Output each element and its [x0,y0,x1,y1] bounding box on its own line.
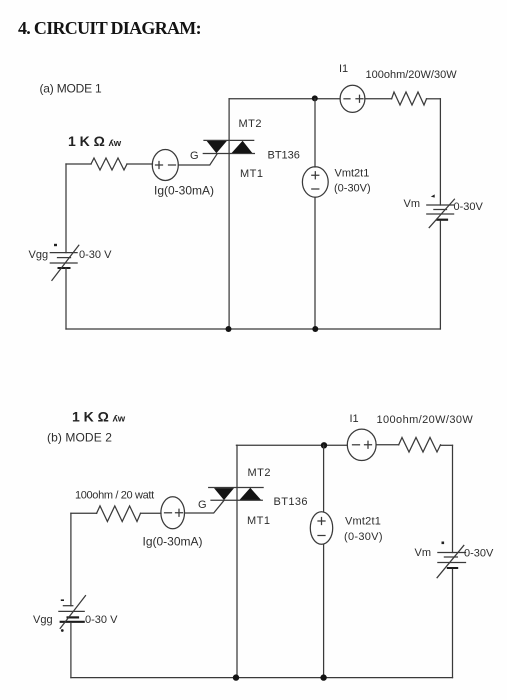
wire: left branch lower vertical (b) [70,623,72,678]
svg-text:ʎw: ʎw [113,414,126,425]
battery Vgg (a) plate 1 long [50,252,77,254]
resistor R 1K (a) zigzag [91,158,127,170]
minus sign inside Ig (a) [169,164,176,166]
svg-text:Vgg: Vgg [33,614,53,626]
wire: top-left horizontal (a) left of R [66,163,91,165]
svg-text:Vm: Vm [415,547,432,559]
svg-text:(b) MODE 2: (b) MODE 2 [47,431,112,445]
svg-text:Vmt2t1: Vmt2t1 [335,168,370,180]
svg-text:0-30V: 0-30V [464,548,494,560]
wire: right branch lower vertical (a) [439,221,441,329]
minus sign inside I1 (b) [353,444,360,446]
svg-text:100ohm/20W/30W: 100ohm/20W/30W [366,69,458,81]
current source Ig (b) [161,497,185,529]
current source I1 (a) [340,85,365,112]
battery Vm (b) plate 2 short [444,556,457,558]
battery Vm (b) plate 1 long [438,552,466,554]
resistor load 100ohm (a) zigzag [392,92,427,105]
resistor R 100ohm/20watt (b) zigzag [97,506,141,522]
junction dot triac-MT1/bottom rail (b) [233,674,239,680]
battery Vgg (a) polarity tick [54,244,57,246]
svg-text:Vm: Vm [404,198,421,210]
battery Vm (a) polarity tick [431,194,435,197]
wire: top rail (a) triac to I1 source [229,98,340,100]
svg-text:MT2: MT2 [239,118,263,130]
wire: I1 to load resistor (b) [376,444,399,446]
plus sign inside I1 (b) [365,441,372,448]
svg-text:1 K Ω: 1 K Ω [68,133,105,149]
wire: right branch upper vertical (a) [439,99,441,205]
resistor load 100ohm (b) zigzag [399,438,441,453]
svg-text:100ohm/20W/30W: 100ohm/20W/30W [377,414,474,426]
svg-text:(a) MODE 1: (a) MODE 1 [40,82,103,96]
wire: load resistor to right corner (a) [427,98,441,100]
battery Vgg (b) plate 4 long [60,621,85,623]
svg-text:(0-30V): (0-30V) [344,531,383,543]
battery Vm (b) polarity tick [442,542,445,545]
battery Vm (a) plate 3 long [427,213,454,215]
battery Vgg (b) variable diagonal [60,596,85,629]
wire: top rail (b) triac to I1 source [236,444,347,446]
svg-text:4. CIRCUIT DIAGRAM:: 4. CIRCUIT DIAGRAM: [18,18,201,38]
wire: left branch upper vertical (a) [65,164,67,253]
svg-text:0-30V: 0-30V [454,201,484,213]
junction dot Vmt2t1/bottom rail (a) [312,326,318,332]
junction dot Vmt2t1/bottom rail (b) [320,674,326,680]
battery Vgg (a) plate 4 short [58,267,71,269]
wire: R to Ig source (a) [127,163,153,165]
svg-text:MT1: MT1 [247,515,271,527]
plus sign inside Vmt2t1 (a) [312,172,319,179]
triac BT136 (b) right triangle [240,488,262,500]
svg-text:0-30 V: 0-30 V [85,614,118,626]
svg-text:Ig(0-30mA): Ig(0-30mA) [143,535,203,549]
triac BT136 (a) left triangle [207,141,227,153]
wire: left horizontal (b) left of R [71,512,97,514]
battery Vgg (b) plate 1 short [63,605,72,607]
wire: Vmt2t1 branch upper (a) [314,99,316,167]
svg-text:MT2: MT2 [248,467,272,479]
svg-text:G: G [190,150,199,162]
wire: left branch lower vertical (a) [65,268,67,329]
wire: Vmt2t1 branch upper (b) [323,445,325,512]
triac BT136 (a) bottom bar [203,153,254,155]
current source I1 (b) [347,429,376,460]
plus sign inside Ig (b) [176,509,183,516]
wire: R to Ig source (b) [141,512,162,514]
plus sign inside Ig (a) [156,162,163,169]
battery Vm (b) plate 4 short [447,567,458,569]
minus sign inside Ig (b) [165,512,172,514]
triac U2 BT136 (b) vertical lead MT2-MT1 [236,445,238,677]
svg-text:MT1: MT1 [240,168,264,180]
triac BT136 (a) right triangle [232,141,253,153]
battery Vgg (b) plate 3 short [67,616,80,618]
battery Vm (a) variable diagonal [429,199,454,227]
plus sign inside Vmt2t1 (b) [318,518,325,525]
junction dot triac-MT1/bottom rail (a) [226,326,232,332]
svg-text:I1: I1 [339,63,348,75]
wire: gate lead (a) [178,154,217,165]
triac BT136 (a) top bar [204,139,254,141]
svg-text:0-30 V: 0-30 V [79,249,112,261]
triac U1 BT136 (a) vertical lead MT2-MT1 [228,99,230,329]
svg-text:Vgg: Vgg [29,249,49,261]
battery Vm (a) plate 2 short [434,209,447,211]
minus sign inside Vmt2t1 (a) [312,188,319,190]
triac BT136 (b) left triangle [214,488,234,500]
triac BT136 (b) top bar [209,487,263,489]
battery Vgg (a) plate 2 short [58,257,71,259]
wire: right branch lower vertical (b) [452,570,454,678]
minus sign inside Vmt2t1 (b) [318,535,325,537]
svg-text:I1: I1 [350,413,359,425]
battery Vgg (b) plate 2 long [59,610,84,612]
triac BT136 (b) bottom bar [211,499,262,501]
junction dot node A (a) [312,95,318,101]
wire: Vmt2t1 branch lower (b) [323,544,325,677]
battery Vm (b) variable diagonal [437,545,464,577]
battery Vm (a) plate 1 long [427,204,454,206]
wire: I1 to load resistor (a) [365,98,392,100]
battery Vgg (a) variable diagonal [52,245,79,280]
value label: 1 K ohm (circuit a) [68,133,122,149]
wire: bottom rail (b) [71,677,453,679]
svg-text:Vmt2t1: Vmt2t1 [345,516,381,528]
battery Vgg (b) lower dot [61,629,64,632]
voltage source Vmt2t1 (a) [302,167,328,197]
svg-text:100ohm / 20 watt: 100ohm / 20 watt [75,490,154,502]
svg-text:(0-30V): (0-30V) [334,183,371,195]
battery Vgg (a) plate 3 long [50,262,77,264]
wire: bottom rail (a) [66,328,440,330]
svg-text:Ig(0-30mA): Ig(0-30mA) [154,184,214,198]
value label: 1 K ohm (circuit b) [72,409,126,425]
plus sign inside I1 (a) [356,95,363,102]
battery Vm (a) plate 4 short [436,219,448,221]
svg-text:BT136: BT136 [268,150,300,162]
junction dot node B (b) [321,442,327,448]
svg-text:ʎw: ʎw [109,138,122,149]
wire: Vmt2t1 branch lower (a) [314,197,316,329]
voltage source Vmt2t1 (b) [310,512,332,545]
wire: left branch upper vertical (b) [70,513,72,605]
svg-text:1 K Ω: 1 K Ω [72,409,109,425]
minus sign inside I1 (a) [344,98,350,100]
wire: right branch upper vertical (b) [452,445,454,552]
battery Vgg (b) polarity tick [61,599,64,601]
current source Ig (a) [152,150,178,181]
wire: load resistor to right corner (b) [441,444,453,446]
battery Vm (b) plate 3 long [438,562,466,564]
wire: gate lead (b) [185,501,224,513]
svg-text:BT136: BT136 [274,496,308,508]
svg-text:G: G [198,499,207,511]
